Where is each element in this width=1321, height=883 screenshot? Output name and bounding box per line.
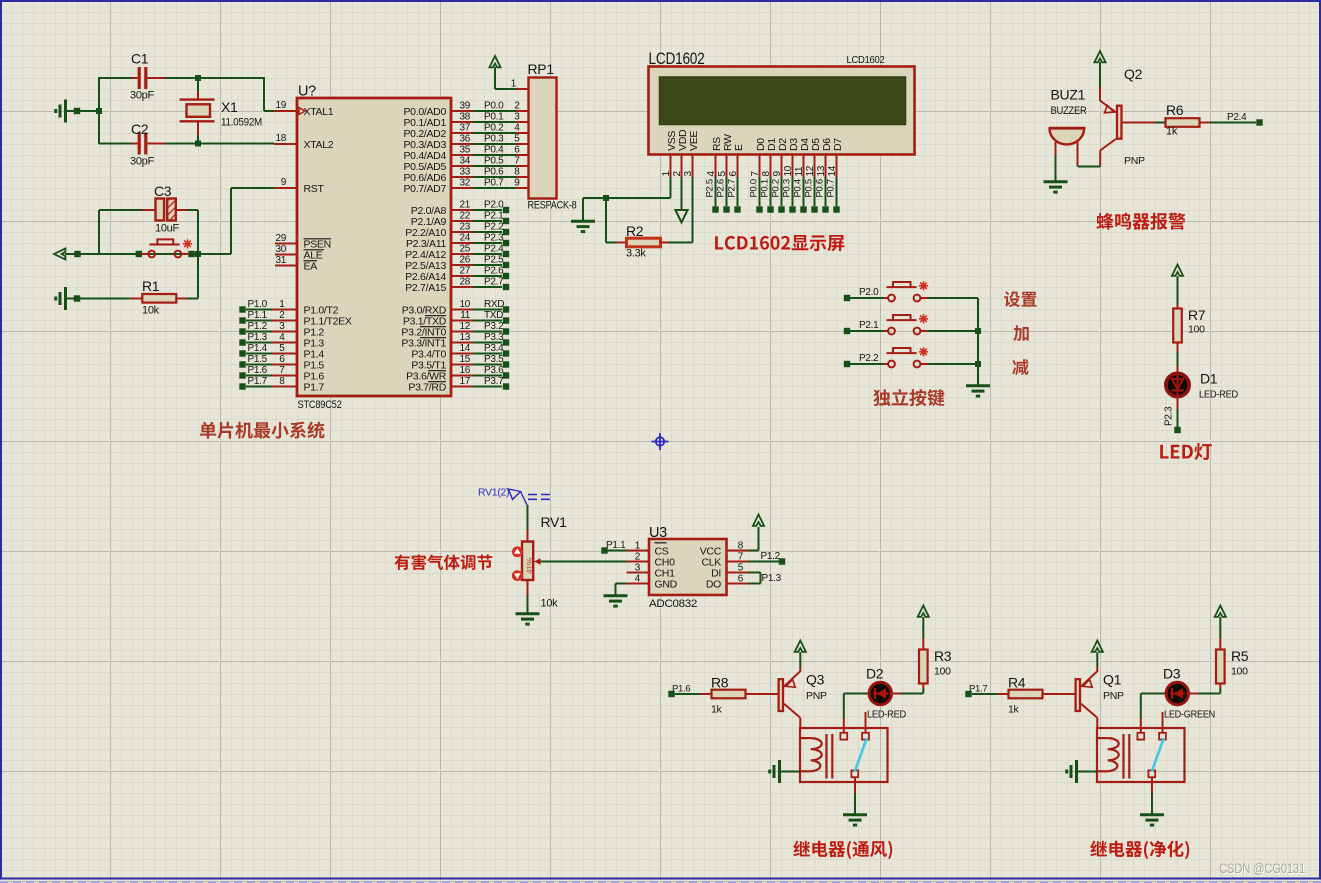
svg-text:P1.2: P1.2 bbox=[761, 551, 781, 562]
pin P0.6 net bbox=[451, 176, 473, 178]
svg-text:P3.5: P3.5 bbox=[484, 354, 504, 365]
svg-text:12: 12 bbox=[805, 165, 816, 176]
svg-text:3.3k: 3.3k bbox=[626, 248, 646, 260]
power terminal (R3) bbox=[922, 617, 924, 638]
svg-text:P2.0: P2.0 bbox=[484, 200, 504, 211]
wire bbox=[527, 505, 529, 530]
svg-text:6: 6 bbox=[728, 171, 739, 177]
svg-text:R8: R8 bbox=[711, 675, 729, 691]
wire (lcd P0.1) bbox=[770, 177, 772, 206]
svg-text:P2.4: P2.4 bbox=[1227, 112, 1247, 123]
pin P3.6 net bbox=[451, 375, 473, 377]
pin P2.1 net bbox=[451, 220, 473, 222]
node bbox=[195, 75, 201, 81]
svg-text:DO: DO bbox=[706, 579, 721, 591]
pin EA bbox=[275, 265, 297, 267]
wire (reset row) bbox=[65, 253, 231, 255]
svg-text:100: 100 bbox=[934, 666, 951, 678]
svg-text:5: 5 bbox=[514, 134, 520, 145]
svg-text:9: 9 bbox=[281, 177, 287, 188]
svg-text:39: 39 bbox=[459, 101, 470, 112]
svg-text:8: 8 bbox=[738, 541, 744, 552]
svg-text:P2.6: P2.6 bbox=[484, 266, 504, 277]
svg-text:PNP: PNP bbox=[1124, 155, 1145, 167]
relay RL2 body bbox=[1097, 728, 1185, 782]
svg-text:P3.3: P3.3 bbox=[484, 332, 504, 343]
label shezhi bbox=[1004, 291, 1037, 307]
node bbox=[195, 141, 201, 147]
button P2.0 bbox=[844, 295, 850, 301]
ground (relay RL1 pole) bbox=[843, 815, 867, 825]
svg-text:1k: 1k bbox=[1166, 126, 1178, 138]
ground (RV1) bbox=[516, 614, 540, 624]
pin P3.1 net bbox=[451, 320, 473, 322]
svg-text:P0.0: P0.0 bbox=[484, 101, 504, 112]
pin P1.7 bbox=[239, 383, 245, 389]
svg-text:VEE: VEE bbox=[688, 131, 700, 151]
svg-text:1: 1 bbox=[661, 171, 672, 177]
pin P3.5 net bbox=[451, 364, 473, 366]
pin XTAL2 bbox=[274, 143, 297, 145]
node bbox=[96, 108, 102, 114]
svg-text:3: 3 bbox=[279, 321, 285, 332]
svg-text:P1.6: P1.6 bbox=[248, 365, 268, 376]
wire (VSS) bbox=[670, 177, 672, 198]
svg-text:LED-RED: LED-RED bbox=[1199, 389, 1239, 401]
svg-text:P0.2: P0.2 bbox=[771, 179, 782, 197]
pin P0.2 net bbox=[451, 132, 473, 134]
svg-text:P0.3: P0.3 bbox=[484, 134, 504, 145]
pin P2.3 net bbox=[451, 242, 473, 244]
pin P0.3 net bbox=[451, 143, 473, 145]
svg-text:4: 4 bbox=[706, 171, 717, 177]
svg-text:D7: D7 bbox=[832, 138, 844, 151]
wire bbox=[1177, 276, 1179, 305]
svg-text:6: 6 bbox=[279, 354, 285, 365]
resistor R5 bbox=[1219, 688, 1221, 694]
svg-text:1: 1 bbox=[635, 541, 641, 552]
svg-text:R6: R6 bbox=[1166, 102, 1184, 118]
relay RL1 coil bbox=[801, 737, 811, 739]
label buzzer section bbox=[1097, 213, 1186, 230]
power terminal (R7) bbox=[1172, 265, 1183, 276]
origin marker bbox=[652, 433, 669, 450]
wire (VEE) bbox=[692, 177, 694, 243]
svg-text:P1.3: P1.3 bbox=[248, 332, 268, 343]
svg-text:2: 2 bbox=[672, 171, 683, 177]
power terminal (R5) bbox=[1219, 617, 1221, 638]
wire (VDD) bbox=[681, 177, 683, 210]
svg-text:P3.7/RD: P3.7/RD bbox=[408, 382, 446, 394]
svg-text:STC89C52: STC89C52 bbox=[298, 399, 342, 411]
svg-text:4: 4 bbox=[279, 332, 285, 343]
pin ALE bbox=[275, 254, 297, 256]
svg-text:5: 5 bbox=[279, 343, 285, 354]
svg-text:13: 13 bbox=[816, 165, 827, 176]
node bbox=[188, 251, 194, 257]
capacitor C1 bbox=[99, 77, 131, 79]
svg-text:XTAL2: XTAL2 bbox=[304, 139, 334, 151]
svg-text:P0.1: P0.1 bbox=[760, 179, 771, 197]
svg-text:P1.2: P1.2 bbox=[248, 321, 268, 332]
ground (U3) bbox=[604, 596, 628, 606]
svg-text:P0.5: P0.5 bbox=[484, 156, 504, 167]
pin P1.1 bbox=[239, 317, 245, 323]
power terminal (Q1) bbox=[1096, 652, 1098, 667]
svg-text:P1.7: P1.7 bbox=[304, 382, 325, 394]
ground (R1) bbox=[56, 287, 66, 310]
pin XTAL1 bbox=[274, 110, 297, 112]
svg-text:3: 3 bbox=[635, 563, 641, 574]
pin P0.0 net bbox=[451, 110, 473, 112]
wire bbox=[67, 110, 99, 112]
pin P2.6 net bbox=[451, 275, 473, 277]
relay RL1 body bbox=[800, 728, 888, 782]
svg-text:U3: U3 bbox=[649, 525, 667, 541]
node bbox=[195, 251, 201, 257]
svg-text:30pF: 30pF bbox=[130, 156, 154, 168]
svg-text:P3.7: P3.7 bbox=[484, 376, 504, 387]
svg-text:Q3: Q3 bbox=[806, 672, 825, 688]
svg-text:23: 23 bbox=[459, 222, 470, 233]
label jia bbox=[1013, 325, 1028, 341]
svg-text:8: 8 bbox=[279, 376, 285, 387]
svg-text:EA: EA bbox=[304, 261, 318, 273]
label jian bbox=[1012, 359, 1028, 375]
pin P3.2 net bbox=[451, 331, 473, 333]
pin P3.0 net bbox=[451, 309, 473, 311]
svg-text:D2: D2 bbox=[866, 666, 884, 682]
svg-text:RST: RST bbox=[304, 183, 325, 195]
svg-text:5: 5 bbox=[738, 563, 744, 574]
svg-text:30: 30 bbox=[275, 244, 286, 255]
svg-text:P2.1: P2.1 bbox=[484, 211, 504, 222]
svg-text:9: 9 bbox=[514, 178, 520, 189]
svg-text:ADC0832: ADC0832 bbox=[649, 598, 697, 610]
wire (U3 GND) bbox=[616, 583, 627, 585]
svg-text:RESPACK-8: RESPACK-8 bbox=[528, 200, 577, 212]
resistor R3 bbox=[922, 688, 924, 694]
wire bbox=[67, 298, 130, 300]
svg-text:P1.1: P1.1 bbox=[248, 310, 268, 321]
svg-text:7: 7 bbox=[750, 171, 761, 177]
pin P0.5 net bbox=[451, 165, 473, 167]
capacitor C3 bbox=[98, 210, 100, 254]
svg-text:P2.3: P2.3 bbox=[1164, 406, 1175, 426]
svg-text:P3.2: P3.2 bbox=[484, 321, 504, 332]
transistor Q2 PNP bbox=[1099, 87, 1101, 101]
svg-text:P2.7/A15: P2.7/A15 bbox=[405, 282, 446, 294]
svg-text:Q2: Q2 bbox=[1124, 66, 1143, 82]
IC U3 ADC0832 bbox=[649, 539, 727, 595]
svg-text:31: 31 bbox=[275, 255, 286, 266]
svg-text:1k: 1k bbox=[711, 704, 723, 716]
pin PSEN bbox=[275, 243, 297, 245]
svg-text:R1: R1 bbox=[142, 278, 160, 294]
svg-text:RV1: RV1 bbox=[541, 514, 568, 530]
svg-text:2: 2 bbox=[514, 101, 520, 112]
U3 pin CH0 bbox=[627, 561, 650, 563]
svg-text:P2.4: P2.4 bbox=[484, 244, 504, 255]
svg-text:7: 7 bbox=[738, 552, 744, 563]
wire (buttons common) bbox=[977, 298, 979, 385]
pin RST bbox=[274, 187, 297, 189]
svg-text:P0.4: P0.4 bbox=[484, 145, 504, 156]
pin P0.7 net bbox=[451, 187, 473, 189]
ground (crystal caps) bbox=[56, 100, 66, 123]
svg-text:P0.1: P0.1 bbox=[484, 112, 504, 123]
node bbox=[975, 361, 981, 367]
pin P1.4 bbox=[239, 350, 245, 356]
svg-text:P1.3: P1.3 bbox=[762, 573, 782, 584]
svg-text:10k: 10k bbox=[142, 305, 160, 317]
svg-text:P1.5: P1.5 bbox=[248, 354, 268, 365]
svg-text:8: 8 bbox=[761, 171, 772, 177]
wire (P2.3) bbox=[1177, 396, 1179, 409]
svg-text:26: 26 bbox=[459, 255, 470, 266]
svg-text:28: 28 bbox=[459, 277, 470, 288]
terminal (reset left arrow) bbox=[54, 248, 65, 259]
U3 pin CLK bbox=[727, 561, 749, 563]
svg-text:17: 17 bbox=[459, 376, 470, 387]
wire (lcd P0.7) bbox=[836, 177, 838, 206]
svg-text:CSDN @CG0131: CSDN @CG0131 bbox=[1219, 861, 1305, 876]
svg-text:P0.4: P0.4 bbox=[793, 179, 804, 197]
svg-text:34: 34 bbox=[459, 156, 470, 167]
pin P0.4 net bbox=[451, 154, 473, 156]
wire (P2.4) bbox=[1210, 122, 1256, 124]
wire bbox=[1078, 166, 1100, 168]
svg-text:P1.0: P1.0 bbox=[248, 299, 268, 310]
svg-text:12: 12 bbox=[459, 321, 470, 332]
svg-text:P0.7/AD7: P0.7/AD7 bbox=[403, 183, 446, 195]
svg-text:P1.1: P1.1 bbox=[606, 540, 626, 551]
U3 pin CH1 bbox=[627, 572, 650, 574]
wire (P2.6) bbox=[726, 177, 728, 206]
pin P2.4 net bbox=[451, 253, 473, 255]
node bbox=[74, 295, 80, 301]
svg-text:7: 7 bbox=[279, 365, 285, 376]
svg-text:PNP: PNP bbox=[1103, 690, 1124, 702]
ground (relay RL2 coil) bbox=[1067, 760, 1077, 783]
ground (relay RL2 pole) bbox=[1140, 815, 1164, 825]
wire bbox=[494, 67, 496, 89]
node bbox=[603, 195, 609, 201]
wire (RV1 wiper to CH0) bbox=[541, 561, 627, 563]
svg-text:LCD1602: LCD1602 bbox=[847, 55, 886, 66]
svg-text:R7: R7 bbox=[1188, 307, 1206, 323]
capacitor C2 bbox=[99, 143, 131, 145]
pin P2.2 net bbox=[451, 231, 473, 233]
wire (lcd P0.0) bbox=[759, 177, 761, 206]
svg-text:C3: C3 bbox=[154, 183, 172, 199]
wire (P1.3 DI-DO loop) bbox=[749, 572, 761, 574]
svg-text:32: 32 bbox=[459, 178, 470, 189]
svg-text:2: 2 bbox=[635, 552, 641, 563]
svg-text:P0.5: P0.5 bbox=[804, 179, 815, 197]
svg-text:14: 14 bbox=[827, 165, 838, 176]
svg-text:XTAL1: XTAL1 bbox=[304, 106, 334, 118]
svg-text:P0.6: P0.6 bbox=[484, 167, 504, 178]
svg-text:33: 33 bbox=[459, 167, 470, 178]
svg-text:P2.5: P2.5 bbox=[705, 179, 716, 197]
power terminal (Q2) bbox=[1094, 51, 1105, 62]
svg-text:Q1: Q1 bbox=[1103, 672, 1122, 688]
wire (P1.7) bbox=[965, 691, 971, 697]
svg-text:P0.7: P0.7 bbox=[826, 179, 837, 197]
node bbox=[74, 108, 80, 114]
svg-text:35: 35 bbox=[459, 145, 470, 156]
node bbox=[975, 328, 981, 334]
U3 pin GND bbox=[627, 583, 650, 585]
pin P2.0 net bbox=[451, 209, 473, 211]
wire (P1.2) bbox=[749, 561, 780, 563]
svg-text:29: 29 bbox=[275, 233, 286, 244]
svg-text:10: 10 bbox=[459, 299, 470, 310]
svg-text:21: 21 bbox=[459, 200, 470, 211]
pin P1.3 bbox=[239, 339, 245, 345]
resistor R1 bbox=[130, 298, 142, 300]
wire (P1.6) bbox=[668, 691, 674, 697]
relay RL1 contacts bbox=[840, 733, 847, 740]
label relay RL1 bbox=[793, 841, 892, 860]
svg-text:P0.3: P0.3 bbox=[782, 179, 793, 197]
svg-text:E: E bbox=[733, 144, 745, 151]
svg-text:X1: X1 bbox=[221, 99, 238, 115]
svg-text:1: 1 bbox=[279, 299, 285, 310]
wire (lcd P0.6) bbox=[825, 177, 827, 206]
svg-text:P0.6: P0.6 bbox=[815, 179, 826, 197]
svg-text:P1.7: P1.7 bbox=[248, 376, 268, 387]
pin P1.0 bbox=[239, 306, 245, 312]
resistor R4 bbox=[997, 693, 1009, 695]
svg-text:11: 11 bbox=[794, 166, 805, 177]
ground (buttons) bbox=[966, 386, 990, 396]
LED D1 bbox=[1177, 366, 1179, 374]
wire (lcd P0.5) bbox=[814, 177, 816, 206]
power terminal (RP1) bbox=[489, 56, 500, 67]
wire (lcd P0.2) bbox=[781, 177, 783, 206]
relay RL2 contacts bbox=[1137, 733, 1144, 740]
svg-text:R4: R4 bbox=[1008, 675, 1026, 691]
svg-text:15: 15 bbox=[459, 354, 470, 365]
pin P1.6 bbox=[239, 372, 245, 378]
relay RL2 switch bbox=[1152, 738, 1164, 772]
pin P0.1 net bbox=[451, 121, 473, 123]
IC U1 STC89C52 body bbox=[297, 98, 451, 396]
svg-text:R2: R2 bbox=[626, 223, 644, 239]
ground (relay RL1 coil) bbox=[770, 760, 780, 783]
pin P3.4 net bbox=[451, 353, 473, 355]
wire bbox=[98, 77, 100, 144]
LED D3 bbox=[1140, 718, 1142, 733]
svg-text:27: 27 bbox=[459, 266, 470, 277]
svg-text:P3.4: P3.4 bbox=[484, 343, 504, 354]
svg-text:1: 1 bbox=[511, 79, 517, 90]
resistor R2 bbox=[605, 198, 607, 243]
svg-text:R3: R3 bbox=[934, 648, 952, 664]
svg-text:C2: C2 bbox=[131, 121, 149, 137]
potentiometer RV1 bbox=[527, 530, 529, 542]
svg-text:7: 7 bbox=[514, 156, 520, 167]
label dulianjian bbox=[873, 389, 944, 406]
label youhai bbox=[394, 554, 492, 570]
svg-text:D3: D3 bbox=[1163, 666, 1181, 682]
wire (P2.7) bbox=[737, 177, 739, 206]
svg-text:P2.7: P2.7 bbox=[727, 179, 738, 197]
svg-text:PNP: PNP bbox=[806, 690, 827, 702]
wire bbox=[187, 298, 198, 300]
label mcu section bbox=[200, 422, 325, 439]
svg-text:2: 2 bbox=[279, 310, 285, 321]
svg-text:18: 18 bbox=[275, 133, 286, 144]
U3 pin DI bbox=[727, 572, 749, 574]
svg-text:P0.0: P0.0 bbox=[749, 179, 760, 197]
power terminal (VDD down arrow) bbox=[675, 210, 687, 223]
svg-text:P1.4: P1.4 bbox=[248, 343, 268, 354]
svg-text:LED-RED: LED-RED bbox=[867, 709, 907, 721]
node bbox=[136, 251, 142, 257]
LED D2 bbox=[843, 718, 845, 733]
pin P1.2 bbox=[239, 328, 245, 334]
svg-text:10k: 10k bbox=[541, 598, 559, 610]
U3 pin VCC bbox=[727, 550, 749, 552]
pin P3.7 net bbox=[451, 386, 473, 388]
button P2.2 bbox=[844, 361, 850, 367]
svg-text:37: 37 bbox=[459, 123, 470, 134]
svg-text:P2.1: P2.1 bbox=[859, 320, 879, 331]
svg-text:14: 14 bbox=[459, 343, 470, 354]
label relay RL2 bbox=[1090, 841, 1189, 860]
buzzer BUZ1 bbox=[1050, 128, 1085, 144]
svg-text:38: 38 bbox=[459, 112, 470, 123]
resistor R8 bbox=[700, 693, 712, 695]
svg-text:R5: R5 bbox=[1231, 648, 1249, 664]
svg-text:P0.7: P0.7 bbox=[484, 178, 504, 189]
resistor R7 bbox=[1177, 305, 1179, 309]
wire (relay RL1 pole) bbox=[854, 777, 856, 793]
pin P2.5 net bbox=[451, 264, 473, 266]
svg-text:U?: U? bbox=[298, 84, 316, 100]
svg-text:6: 6 bbox=[514, 145, 520, 156]
ground (LCD) bbox=[571, 221, 595, 231]
pin P2.7 net bbox=[451, 286, 473, 288]
label lcd section bbox=[715, 235, 844, 251]
power terminal (Q3) bbox=[799, 652, 801, 667]
svg-text:41%: 41% bbox=[525, 557, 535, 574]
resistor R6 bbox=[1155, 122, 1166, 124]
node bbox=[74, 251, 80, 257]
label led bbox=[1160, 443, 1212, 460]
ground (buzzer) bbox=[1044, 182, 1068, 192]
button P2.1 bbox=[844, 328, 850, 334]
wire (relay RL2 pole) bbox=[1151, 777, 1153, 793]
svg-text:P2.5: P2.5 bbox=[484, 255, 504, 266]
svg-text:P2.2: P2.2 bbox=[859, 353, 879, 364]
svg-text:30pF: 30pF bbox=[130, 90, 154, 102]
svg-text:GND: GND bbox=[655, 579, 678, 591]
svg-text:C1: C1 bbox=[131, 51, 149, 67]
wire (P2.5) bbox=[715, 177, 717, 206]
relay RL1 switch bbox=[855, 738, 867, 772]
svg-text:5: 5 bbox=[717, 171, 728, 177]
svg-text:BUZZER: BUZZER bbox=[1051, 105, 1087, 117]
svg-text:4: 4 bbox=[514, 123, 520, 134]
svg-text:D1: D1 bbox=[1200, 371, 1218, 387]
svg-text:P1.7: P1.7 bbox=[969, 684, 987, 695]
svg-text:11: 11 bbox=[460, 310, 471, 321]
svg-text:LED-GREEN: LED-GREEN bbox=[1164, 709, 1215, 721]
